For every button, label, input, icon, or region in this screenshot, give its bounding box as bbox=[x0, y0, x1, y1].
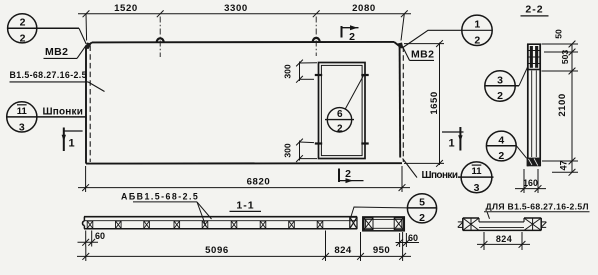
callout bubble 11/3 left (shponki) bbox=[6, 102, 86, 132]
leader bubble 4/2 to bottom block bbox=[516, 146, 526, 159]
svg-text:6: 6 bbox=[337, 109, 343, 120]
svg-text:2080: 2080 bbox=[352, 3, 376, 14]
leader bubble 5/2 to slab end bbox=[351, 207, 407, 217]
lifting loop 1 centerline bbox=[159, 17, 161, 58]
section 1-1 web ribs bbox=[87, 221, 323, 228]
dimension 300 lower bbox=[296, 139, 317, 162]
svg-text:2: 2 bbox=[349, 31, 355, 43]
svg-text:2-2: 2-2 bbox=[525, 3, 543, 15]
section mark 1 right bbox=[459, 127, 461, 151]
svg-text:1-1: 1-1 bbox=[236, 200, 254, 212]
section mark 1 left bbox=[63, 128, 65, 152]
callout bubble 11/3 right bbox=[458, 162, 494, 193]
svg-text:1: 1 bbox=[448, 138, 454, 150]
top dimension line bbox=[78, 10, 411, 40]
right dimension 1650 bbox=[404, 40, 444, 167]
dimension 300 upper bbox=[296, 60, 317, 83]
svg-text:1650: 1650 bbox=[429, 91, 440, 114]
lifting loop 1 bbox=[157, 38, 164, 42]
svg-text:3300: 3300 bbox=[224, 3, 248, 14]
svg-text:1520: 1520 bbox=[114, 3, 138, 14]
svg-text:1: 1 bbox=[68, 138, 74, 150]
callout bubble 1/2 right bbox=[462, 15, 492, 45]
detail end blocks hatch bbox=[463, 218, 541, 230]
svg-text:60: 60 bbox=[408, 233, 418, 243]
svg-text:2100: 2100 bbox=[557, 93, 568, 116]
panel plan: left edge bbox=[85, 46, 87, 164]
detail dim 824 bbox=[477, 232, 530, 250]
svg-text:824: 824 bbox=[334, 245, 351, 256]
svg-text:В1.5-68.27.16-2.5: В1.5-68.27.16-2.5 bbox=[10, 70, 87, 80]
callout bubble 2/2 left bbox=[8, 14, 80, 43]
section 2-2 right dimension chain bbox=[542, 41, 579, 176]
panel plan: top edge bbox=[86, 42, 400, 47]
section mark 2 bottom bbox=[338, 169, 340, 183]
bottom dimension 6820 bbox=[78, 166, 410, 192]
svg-text:3: 3 bbox=[19, 122, 25, 134]
section 2-2 top embed block MB2 bbox=[528, 44, 540, 69]
panel plan: bottom edge bbox=[86, 162, 402, 164]
leader bubble 2/2 to corner bbox=[79, 28, 86, 44]
panel plan: right edge bbox=[399, 46, 402, 158]
svg-text:47: 47 bbox=[559, 160, 569, 170]
lifting loop 2 centerline bbox=[315, 17, 317, 57]
svg-text:11: 11 bbox=[471, 166, 482, 177]
svg-text:2: 2 bbox=[345, 168, 351, 180]
svg-text:2: 2 bbox=[498, 150, 504, 162]
svg-text:50: 50 bbox=[554, 29, 564, 39]
embed plate mark top-left corner bbox=[85, 43, 92, 50]
svg-text:2: 2 bbox=[497, 90, 503, 102]
detail slab outline bbox=[463, 218, 541, 230]
leader bubble 3/2 to top block bbox=[519, 67, 528, 86]
svg-text:6820: 6820 bbox=[247, 176, 271, 187]
section 2-2 bottom embed block bbox=[527, 158, 541, 167]
svg-text:300: 300 bbox=[283, 143, 293, 158]
svg-text:160: 160 bbox=[523, 178, 538, 188]
svg-text:АБВ1.5-68-2.5: АБВ1.5-68-2.5 bbox=[121, 192, 198, 202]
svg-text:2: 2 bbox=[337, 124, 343, 135]
dim 60 right of sill piece bbox=[396, 233, 420, 247]
opening edge embed ticks bbox=[315, 75, 369, 144]
main bottom dimension line (5096, 824, 950) bbox=[77, 231, 411, 262]
svg-text:1: 1 bbox=[474, 19, 480, 31]
section 1-1 left end profile bbox=[82, 217, 84, 229]
svg-text:11: 11 bbox=[17, 106, 28, 117]
svg-text:Шпонки: Шпонки bbox=[43, 107, 84, 118]
door opening outer rect bbox=[319, 63, 366, 159]
svg-text:5096: 5096 bbox=[205, 245, 229, 256]
svg-text:300: 300 bbox=[283, 64, 293, 79]
section 2-2 panel walls bbox=[528, 44, 540, 166]
svg-text:3: 3 bbox=[497, 74, 503, 86]
callout bubble 4/2 bbox=[486, 131, 516, 161]
embed plate mark top-right corner bbox=[398, 43, 404, 49]
svg-text:2: 2 bbox=[419, 212, 425, 224]
svg-text:950: 950 bbox=[373, 245, 390, 256]
svg-text:2: 2 bbox=[20, 17, 26, 29]
svg-text:Шпонки: Шпонки bbox=[422, 170, 459, 181]
svg-text:МВ2: МВ2 bbox=[411, 49, 434, 61]
svg-text:2: 2 bbox=[474, 35, 480, 47]
section 1-1 right end block bbox=[350, 217, 357, 228]
svg-text:4: 4 bbox=[498, 134, 504, 146]
svg-text:3: 3 bbox=[474, 182, 480, 194]
door opening inner rect bbox=[321, 65, 362, 155]
svg-text:МВ2: МВ2 bbox=[45, 46, 68, 58]
svg-text:824: 824 bbox=[496, 234, 512, 244]
callout bubble 5/2 bbox=[407, 194, 436, 223]
lifting loop 2 bbox=[313, 38, 320, 42]
dim 60 left of section 1-1 bbox=[78, 231, 99, 247]
leader from bubble 6/2 to opening edge bbox=[345, 76, 364, 110]
label Shponki right with leader bbox=[403, 159, 417, 178]
svg-text:2: 2 bbox=[20, 32, 26, 44]
keyed edge dashed line left bbox=[89, 46, 91, 163]
svg-text:60: 60 bbox=[95, 231, 105, 241]
section mark 2 top bbox=[341, 26, 343, 38]
callout bubble 3/2 bbox=[485, 71, 520, 101]
leader panel corner to bubble 1/2 bbox=[404, 30, 493, 47]
keyed edge dashed line right bbox=[402, 47, 404, 163]
detail end wings bbox=[458, 222, 547, 228]
svg-text:ДЛЯ В1.5-68.27.16-2.5Л: ДЛЯ В1.5-68.27.16-2.5Л bbox=[486, 201, 589, 211]
dim 160 below section 2-2 bbox=[515, 169, 546, 193]
svg-text:5: 5 bbox=[419, 197, 425, 209]
svg-text:503: 503 bbox=[560, 50, 570, 65]
section 1-1 slab body bbox=[84, 216, 357, 218]
position bubble 6/2 bbox=[325, 108, 354, 132]
section 1-1 separate sill piece (950) bbox=[363, 217, 405, 231]
